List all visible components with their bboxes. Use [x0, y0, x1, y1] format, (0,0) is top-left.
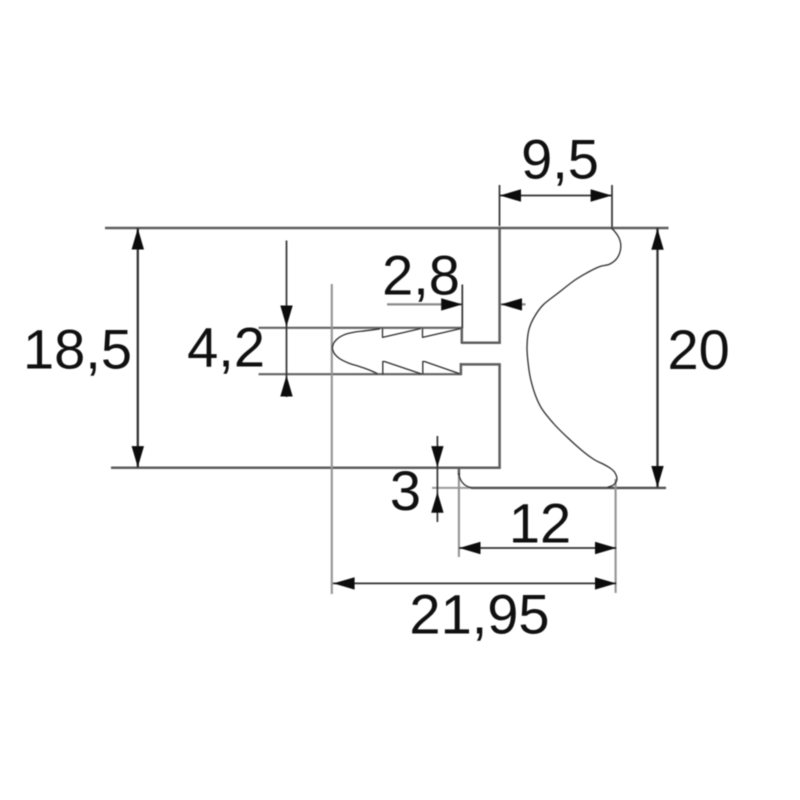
svg-text:4,2: 4,2 [187, 316, 265, 379]
svg-text:21,95: 21,95 [409, 583, 549, 646]
svg-text:3: 3 [390, 459, 421, 522]
svg-text:20: 20 [668, 318, 730, 381]
svg-text:9,5: 9,5 [521, 128, 599, 191]
svg-text:12: 12 [509, 492, 571, 555]
svg-text:18,5: 18,5 [23, 318, 132, 381]
svg-text:2,8: 2,8 [382, 244, 460, 307]
